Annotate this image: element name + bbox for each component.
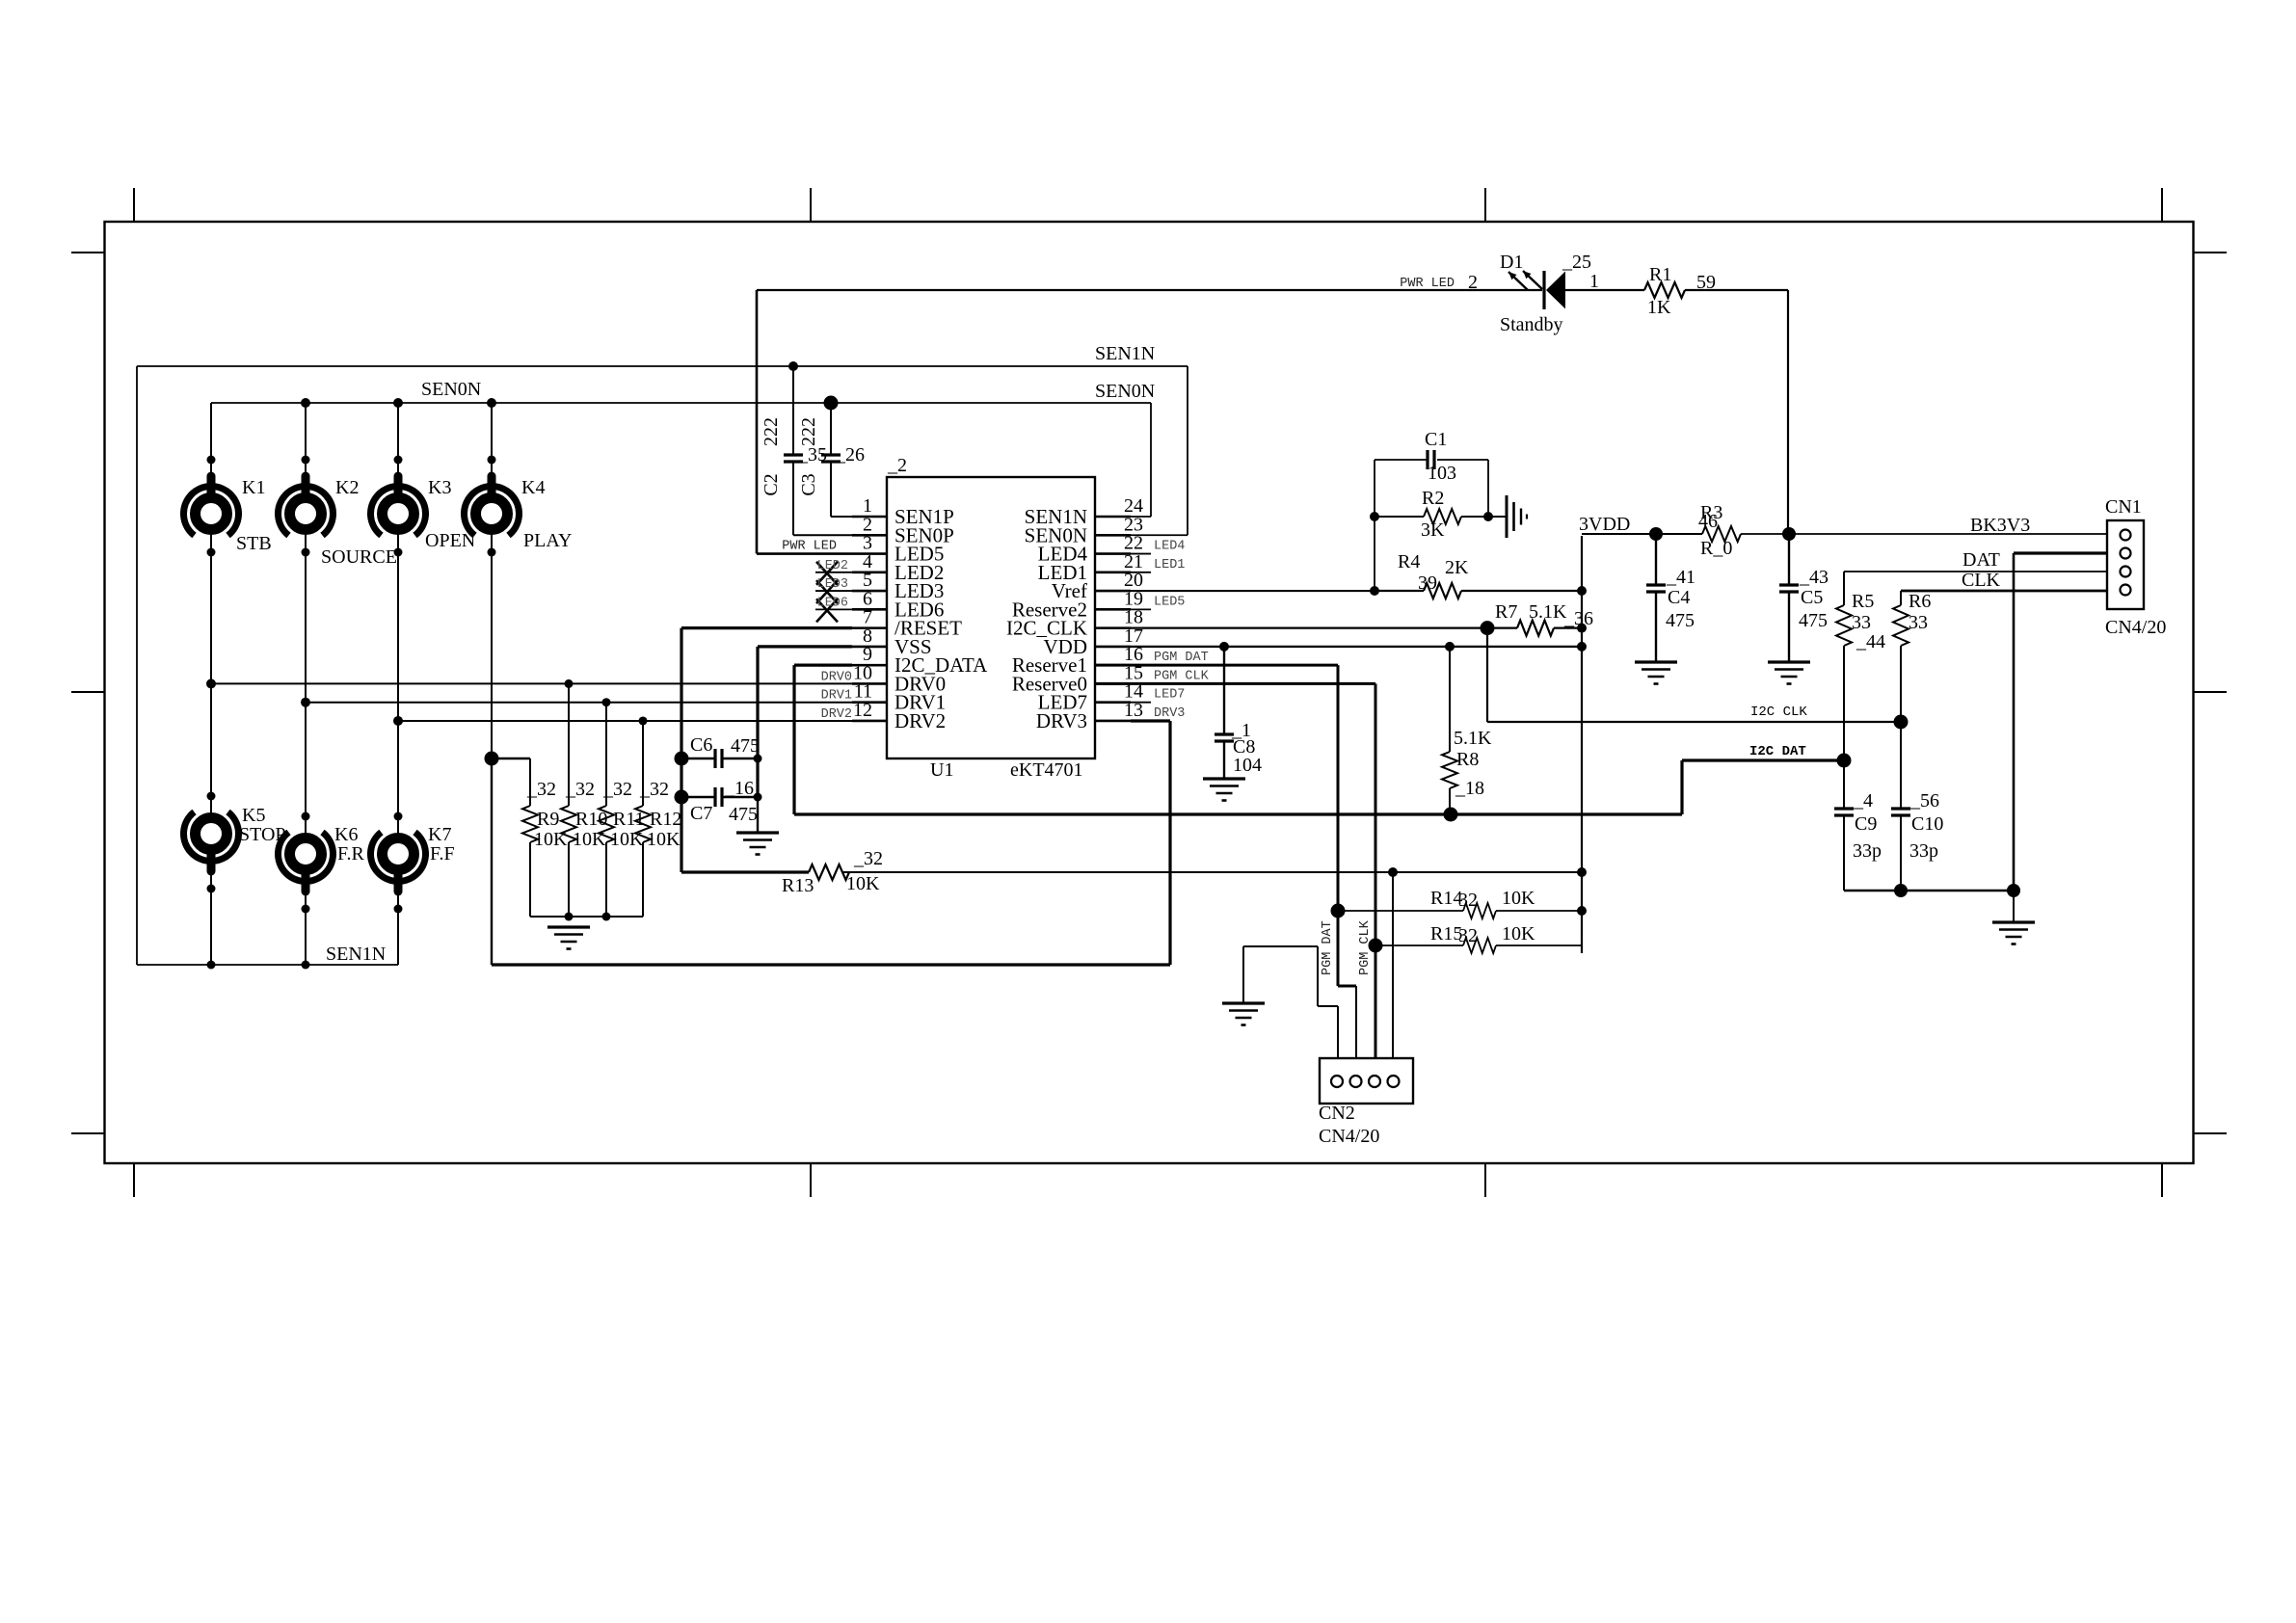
svg-text:33: 33: [1852, 612, 1871, 633]
svg-text:U1: U1: [930, 759, 953, 781]
svg-text:_41: _41: [1666, 567, 1695, 588]
svg-text:39: 39: [1418, 572, 1437, 594]
svg-text:STB: STB: [236, 533, 272, 554]
svg-text:DRV2: DRV2: [821, 707, 852, 722]
svg-text:3VDD: 3VDD: [1579, 514, 1630, 535]
svg-text:eKT4701: eKT4701: [1010, 759, 1083, 781]
svg-text:R_0: R_0: [1700, 538, 1732, 559]
svg-text:C10: C10: [1911, 813, 1943, 835]
svg-text:475: 475: [729, 804, 758, 825]
svg-text:2: 2: [1468, 272, 1478, 293]
svg-text:1: 1: [1589, 271, 1599, 292]
svg-text:R9: R9: [537, 809, 559, 830]
svg-text:K1: K1: [242, 477, 265, 498]
svg-text:R13: R13: [782, 875, 814, 896]
svg-text:CN1: CN1: [2105, 496, 2142, 518]
svg-text:D1: D1: [1500, 252, 1523, 273]
svg-text:R8: R8: [1456, 749, 1479, 770]
svg-text:I2C CLK: I2C CLK: [1750, 705, 1807, 720]
svg-text:DAT: DAT: [1962, 549, 2000, 571]
svg-text:CN2: CN2: [1319, 1103, 1355, 1124]
svg-text:222: 222: [798, 417, 819, 446]
svg-text:_25: _25: [1562, 252, 1591, 273]
svg-text:C4: C4: [1668, 587, 1690, 608]
svg-text:DRV3: DRV3: [1154, 706, 1185, 721]
svg-text:_4: _4: [1853, 790, 1873, 811]
svg-text:R5: R5: [1852, 591, 1874, 612]
svg-text:10K: 10K: [846, 873, 880, 894]
svg-text:SEN1N: SEN1N: [326, 944, 386, 965]
svg-text:K3: K3: [428, 477, 451, 498]
svg-text:DRV3: DRV3: [1036, 709, 1087, 732]
svg-text:K5: K5: [242, 805, 265, 826]
svg-text:PGM CLK: PGM CLK: [1154, 669, 1210, 683]
svg-text:1K: 1K: [1647, 297, 1671, 318]
svg-text:SEN1N: SEN1N: [1095, 343, 1155, 364]
svg-text:F.R: F.R: [337, 843, 365, 865]
svg-text:_56: _56: [1909, 790, 1939, 811]
svg-text:12: 12: [853, 700, 872, 721]
svg-text:_2: _2: [887, 455, 907, 476]
svg-text:103: 103: [1428, 463, 1456, 484]
svg-text:C1: C1: [1425, 429, 1447, 450]
svg-text:CN4/20: CN4/20: [1319, 1126, 1379, 1147]
svg-text:10K: 10K: [1502, 923, 1535, 945]
svg-text:C3: C3: [798, 473, 819, 495]
svg-text:10K: 10K: [647, 829, 681, 850]
svg-text:F.F: F.F: [430, 843, 455, 865]
svg-text:SOURCE: SOURCE: [321, 546, 397, 568]
svg-text:222: 222: [761, 417, 782, 446]
svg-text:R12: R12: [650, 809, 681, 830]
svg-text:R4: R4: [1398, 551, 1420, 572]
svg-text:K2: K2: [335, 477, 359, 498]
svg-text:CLK: CLK: [1962, 570, 2001, 591]
svg-text:CN4/20: CN4/20: [2105, 617, 2166, 638]
svg-text:SEN0N: SEN0N: [1095, 381, 1155, 402]
svg-text:R2: R2: [1422, 488, 1444, 509]
svg-text:10K: 10K: [1502, 888, 1535, 909]
svg-text:R6: R6: [1909, 591, 1931, 612]
svg-text:BK3V3: BK3V3: [1970, 515, 2030, 536]
svg-text:Standby: Standby: [1500, 314, 1563, 335]
svg-text:32: 32: [1458, 890, 1478, 911]
svg-text:C6: C6: [690, 734, 712, 756]
svg-text:DRV2: DRV2: [894, 709, 946, 732]
svg-text:LED7: LED7: [1154, 688, 1185, 703]
svg-text:33: 33: [1909, 612, 1928, 633]
svg-text:R7: R7: [1495, 601, 1517, 623]
svg-text:LED1: LED1: [1154, 558, 1185, 572]
svg-text:K7: K7: [428, 824, 451, 845]
svg-text:OPEN: OPEN: [425, 530, 475, 551]
svg-text:R1: R1: [1649, 264, 1671, 285]
svg-text:PWR LED: PWR LED: [1400, 277, 1455, 291]
svg-text:C2: C2: [761, 473, 782, 495]
svg-text:_35: _35: [797, 444, 827, 466]
svg-text:LED5: LED5: [1154, 595, 1185, 609]
svg-text:475: 475: [1666, 610, 1695, 631]
svg-text:46: 46: [1698, 511, 1718, 532]
svg-text:33p: 33p: [1853, 840, 1882, 862]
svg-text:5.1K: 5.1K: [1529, 601, 1567, 623]
svg-text:PGM DAT: PGM DAT: [1321, 920, 1335, 975]
svg-text:3K: 3K: [1421, 519, 1445, 541]
svg-text:_43: _43: [1799, 567, 1829, 588]
svg-text:475: 475: [1799, 610, 1828, 631]
svg-text:I2C DAT: I2C DAT: [1749, 744, 1806, 759]
svg-text:2K: 2K: [1445, 557, 1469, 578]
svg-text:PGM CLK: PGM CLK: [1358, 919, 1373, 975]
svg-text:_36: _36: [1563, 608, 1593, 629]
svg-text:PGM DAT: PGM DAT: [1154, 651, 1209, 665]
svg-text:_16: _16: [724, 778, 754, 799]
svg-text:_44: _44: [1855, 631, 1885, 652]
svg-text:SEN0N: SEN0N: [421, 379, 481, 400]
svg-text:LED6: LED6: [817, 596, 848, 610]
svg-text:104: 104: [1233, 755, 1262, 776]
svg-text:DRV1: DRV1: [821, 689, 852, 704]
svg-text:5.1K: 5.1K: [1454, 728, 1492, 749]
svg-text:32: 32: [1458, 925, 1478, 946]
svg-text:475: 475: [731, 735, 760, 757]
svg-text:_32: _32: [853, 848, 883, 869]
svg-text:LED4: LED4: [1154, 540, 1185, 554]
svg-text:DRV0: DRV0: [821, 670, 852, 684]
svg-text:PLAY: PLAY: [523, 530, 572, 551]
svg-text:C5: C5: [1801, 587, 1823, 608]
svg-text:K6: K6: [334, 824, 358, 845]
svg-text:LED3: LED3: [817, 577, 848, 592]
svg-text:33p: 33p: [1909, 840, 1938, 862]
svg-text:C9: C9: [1855, 813, 1877, 835]
svg-text:_26: _26: [835, 444, 865, 466]
svg-text:STOP: STOP: [239, 824, 286, 845]
svg-text:PWR LED: PWR LED: [782, 540, 837, 554]
svg-text:_18: _18: [1455, 778, 1484, 799]
svg-text:C7: C7: [690, 803, 712, 824]
svg-text:LED2: LED2: [817, 559, 848, 573]
svg-text:K4: K4: [521, 477, 545, 498]
